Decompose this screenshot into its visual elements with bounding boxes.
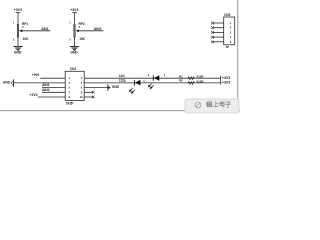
svg-text:GND: GND (3, 81, 11, 85)
wire RP1 pin1 stem (17, 13, 19, 25)
wire RP1 wiper to AIN1 (22, 30, 50, 32)
resistor R2 (179, 79, 204, 85)
svg-text:AIN1: AIN1 (42, 83, 50, 87)
wire CN1 pin8 (84, 91, 93, 93)
power port +3V3 (R1 right) (221, 76, 231, 80)
svg-text:10K: 10K (23, 37, 29, 41)
no-ERC marker CN1 pin8 (92, 91, 95, 94)
wire CN2 pin1 (213, 22, 224, 24)
svg-text:10K: 10K (79, 37, 85, 41)
svg-text:CN2: CN2 (224, 13, 231, 17)
glyph 遇 (207, 102, 212, 107)
no-ERC marker CN2 pin4 (211, 36, 214, 39)
svg-text:CN1: CN1 (70, 67, 77, 71)
wire CN2 pin4 (213, 36, 224, 38)
svg-text:AIN2: AIN2 (42, 88, 50, 92)
svg-text:+3V3: +3V3 (70, 8, 78, 12)
LED LED2 (on LD1 net) (148, 73, 166, 89)
power port +3V3 (R2 right) (221, 80, 231, 84)
sheet right border (237, 0, 239, 111)
svg-text:+5V0: +5V0 (32, 73, 40, 77)
svg-text:AIN2: AIN2 (94, 27, 102, 31)
no-ERC marker CN2 pin5 (211, 40, 214, 43)
glyph 电 (220, 101, 225, 107)
ground (RP2) (70, 47, 79, 55)
wire CN1 pin9 (38, 96, 65, 98)
glyph 子 (225, 102, 230, 108)
connector CN2 (224, 13, 235, 49)
glyph 上 (213, 101, 218, 106)
svg-text:AIN1: AIN1 (41, 27, 49, 31)
wire RP2 pin3 stem (74, 37, 76, 46)
wire CN1 pin7 (42, 91, 65, 93)
wire CN2 pin2 (213, 27, 224, 29)
ground (RP1) (13, 47, 22, 55)
LED LED1 (on LD2 net) (124, 79, 145, 93)
resistor RP1 body (13, 20, 29, 41)
power port +3V3 (RP1 top) (14, 8, 22, 12)
no-ERC marker CN2 pin1 (211, 22, 214, 25)
power port GND (left) (3, 79, 14, 86)
svg-text:GND: GND (14, 51, 22, 55)
svg-text:510R: 510R (197, 75, 205, 79)
RP1 wiper arrow pin2 (19, 25, 24, 32)
svg-text:R1: R1 (179, 74, 183, 78)
wire CN1 pin3 (14, 82, 66, 84)
wire CN1 pin2 to LD1 net (84, 77, 221, 79)
sheet bottom border (0, 110, 240, 112)
svg-text:+3V3: +3V3 (222, 76, 230, 80)
wire CN2 pin5 (213, 41, 224, 43)
wire CN1 pin10 (84, 96, 93, 98)
svg-text:R2: R2 (179, 79, 183, 83)
svg-text:LD1: LD1 (119, 74, 125, 78)
resistor R1 (179, 74, 204, 79)
watermark box (185, 99, 239, 113)
RP2 wiper arrow pin2 (76, 25, 81, 32)
svg-text:+3V3: +3V3 (14, 8, 22, 12)
wire CN1 pin6 to GND (84, 87, 108, 89)
svg-text:+3V3: +3V3 (222, 81, 230, 85)
connector CN1 (65, 67, 84, 105)
wire RP1 pin3 stem (17, 37, 19, 46)
svg-text:GND: GND (112, 85, 120, 89)
wire CN1 pin4 to LD2 net (84, 82, 221, 84)
svg-text:5P: 5P (226, 45, 230, 49)
wire CN1 pin5 (42, 87, 65, 89)
svg-text:GND: GND (70, 51, 78, 55)
wire RP2 wiper to AIN2 (79, 30, 104, 32)
power port +3V3 (RP2 top) (70, 8, 78, 12)
no-ERC marker CN2 pin3 (211, 31, 214, 34)
svg-text:5X2P: 5X2P (66, 101, 75, 105)
resistor RP2 body (69, 20, 85, 41)
no-ERC marker CN2 pin2 (211, 26, 214, 29)
wire CN1 pin1 (40, 77, 65, 79)
wire CN2 pin3 (213, 31, 224, 33)
power port GND (right) (108, 84, 120, 91)
svg-text:510R: 510R (197, 79, 205, 83)
no-ERC marker CN1 pin10 (92, 96, 95, 99)
wire RP2 pin1 stem (74, 13, 76, 25)
svg-text:+3V3: +3V3 (30, 93, 38, 97)
